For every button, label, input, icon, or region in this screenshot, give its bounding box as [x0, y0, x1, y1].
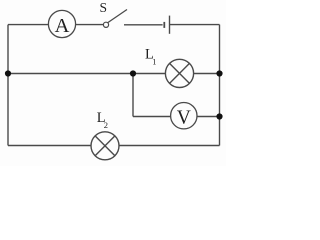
wire left vertical [7, 25, 9, 146]
wire ammeter to switch [76, 24, 104, 26]
node dot left middle junction [5, 70, 11, 76]
battery short plate (negative) [163, 22, 165, 28]
lamp L2 circle [91, 132, 119, 160]
wire voltmeter to right vertical [197, 116, 220, 118]
wire top left segment [8, 24, 49, 26]
lamp L2 cross [95, 136, 115, 156]
node dot right voltmeter junction [216, 113, 222, 119]
svg-text:1: 1 [152, 56, 156, 66]
switch S lever [108, 10, 127, 23]
wire middle left segment [8, 73, 165, 75]
voltmeter U: circle [171, 103, 197, 129]
wire switch to battery [124, 24, 163, 26]
wire lamp L1 to right vertical [194, 73, 220, 75]
svg-text:2: 2 [104, 120, 108, 130]
svg-text:A: A [55, 15, 70, 37]
battery long plate (positive) [169, 16, 171, 34]
wire battery to top-right corner [170, 24, 220, 26]
lamp L1 cross [170, 63, 190, 83]
wire bottom left segment [8, 145, 91, 147]
wire right vertical [219, 25, 221, 146]
wire branch corner to voltmeter [133, 116, 171, 118]
wire lamp L2 to bottom-right corner [119, 145, 220, 147]
svg-text:S: S [100, 0, 108, 15]
wire voltmeter branch vertical [132, 74, 134, 117]
ammeter U: circle [48, 10, 75, 37]
switch S pivot circle [103, 22, 108, 27]
svg-text:V: V [177, 108, 191, 129]
node dot voltmeter branch junction [130, 70, 136, 76]
node dot right middle junction [216, 70, 222, 76]
lamp L1 circle [165, 59, 193, 87]
